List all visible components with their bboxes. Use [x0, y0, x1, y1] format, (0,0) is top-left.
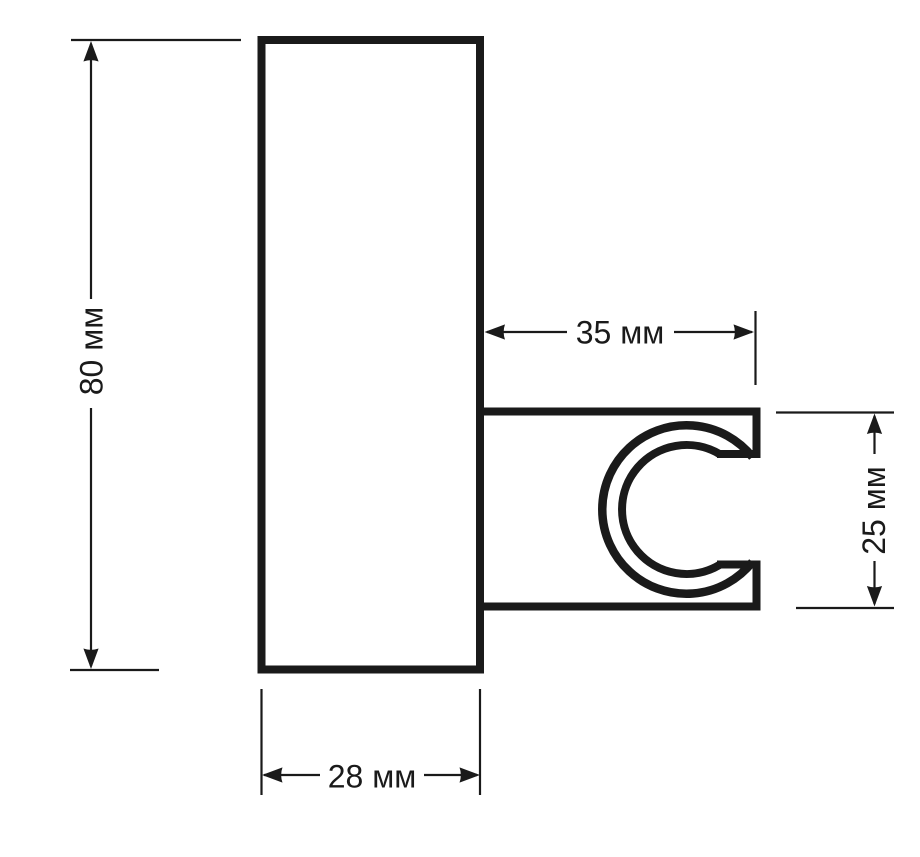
- svg-text:28 мм: 28 мм: [328, 759, 416, 795]
- svg-text:80 мм: 80 мм: [73, 307, 109, 395]
- svg-text:35 мм: 35 мм: [576, 315, 664, 351]
- svg-text:25 мм: 25 мм: [856, 466, 892, 554]
